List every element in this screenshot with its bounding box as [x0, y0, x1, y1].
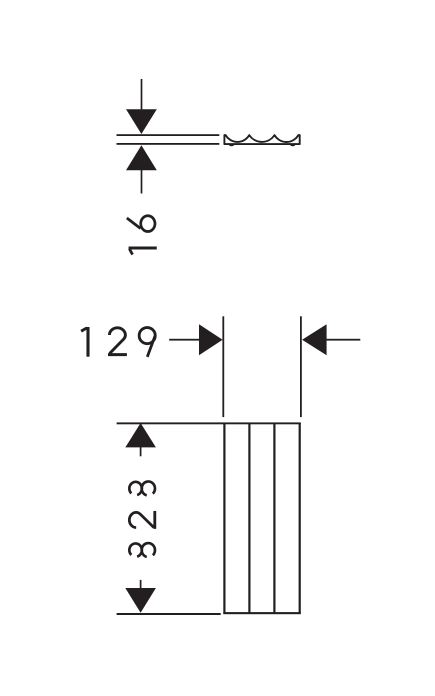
dim 323: up arrow	[125, 423, 156, 447]
side view: plate bottom line	[117, 143, 220, 145]
dim 16: lower stem	[141, 170, 143, 194]
front view: left edge	[223, 423, 225, 614]
wavy profile left foot	[229, 144, 234, 147]
dim text 16 (rotated)	[127, 216, 157, 255]
dim 129: left leader line	[169, 339, 199, 341]
dim 129: left extension line	[222, 316, 224, 417]
front view: bottom edge	[223, 612, 300, 614]
side view: plate top line	[117, 134, 220, 136]
dim 129: left arrow	[199, 324, 223, 355]
dim 16: arrow down	[126, 109, 157, 134]
dim 323: down arrow	[125, 588, 156, 613]
dim text 129	[81, 327, 155, 357]
front view: top boundary line	[117, 422, 301, 424]
dim 323: upper stem	[140, 447, 142, 456]
dim 129: right arrow	[302, 324, 327, 355]
dim 323: lower stem	[140, 580, 142, 588]
dim 16: arrow up	[126, 145, 157, 170]
front view: inner line 1	[248, 423, 250, 614]
wavy profile right foot	[290, 144, 295, 147]
wavy profile outline	[224, 135, 299, 144]
dim 129: right extension line	[300, 316, 302, 417]
dim 16: upper stem	[141, 79, 143, 109]
front view: bottom extension segment	[117, 613, 221, 615]
front view: inner line 2	[273, 423, 275, 614]
dim 129: right leader line	[327, 339, 361, 341]
front view: right edge	[299, 423, 301, 614]
dim text 323 (rotated)	[129, 481, 155, 556]
